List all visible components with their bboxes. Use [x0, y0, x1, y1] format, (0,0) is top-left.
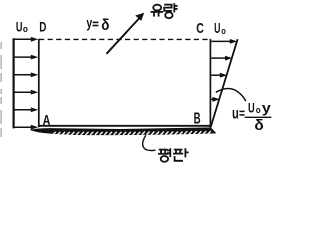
- pointer curve from slant profile to u= label: [216, 88, 246, 101]
- outlet velocity arrow 4: [211, 97, 220, 102]
- svg-text:U: U: [214, 21, 220, 37]
- svg-text:o: o: [256, 105, 261, 116]
- control volume left edge DA: [38, 39, 40, 127]
- inlet velocity arrow 1: [14, 37, 38, 42]
- outlet velocity arrow 2: [211, 56, 232, 61]
- svg-text:o: o: [23, 24, 28, 35]
- control volume top edge DC (dashed, y=delta line): [39, 38, 210, 40]
- svg-text:u: u: [232, 105, 239, 122]
- svg-text:U: U: [248, 99, 255, 115]
- inlet velocity arrow 5: [14, 107, 38, 112]
- control volume bottom edge AB (plate top): [38, 125, 211, 127]
- flat plate body (hatched): [30, 127, 217, 135]
- svg-text:D: D: [39, 18, 46, 34]
- svg-text:C: C: [196, 21, 204, 37]
- svg-text:y: y: [262, 99, 271, 115]
- pointer curve from plate to label: [143, 135, 156, 150]
- svg-text:U: U: [16, 18, 23, 34]
- flow-rate arrow through top surface: [107, 13, 145, 54]
- svg-text:B: B: [194, 110, 201, 127]
- svg-text:y: y: [86, 15, 92, 31]
- left scan artifact line: [0, 42, 2, 137]
- control volume right edge CB: [209, 39, 211, 127]
- inlet velocity arrow 2: [14, 55, 38, 60]
- inlet profile vertical line: [13, 38, 15, 128]
- inlet velocity arrow 3: [14, 72, 38, 77]
- label 유량 (flow rate, drawn glyphs): [151, 3, 178, 18]
- svg-text:A: A: [43, 113, 51, 129]
- svg-text:δ: δ: [254, 118, 264, 134]
- outlet linear profile slant line: [211, 39, 238, 127]
- inlet velocity arrow 4: [14, 90, 38, 95]
- svg-text:δ: δ: [101, 17, 109, 34]
- label u = U0y/delta: [232, 99, 271, 134]
- svg-text:o: o: [221, 26, 226, 37]
- outlet velocity arrow 1: [211, 39, 237, 44]
- outlet velocity arrow 3: [211, 73, 227, 78]
- label 평판 (flat plate, drawn glyphs): [158, 148, 189, 162]
- inlet velocity arrow 6: [14, 125, 38, 130]
